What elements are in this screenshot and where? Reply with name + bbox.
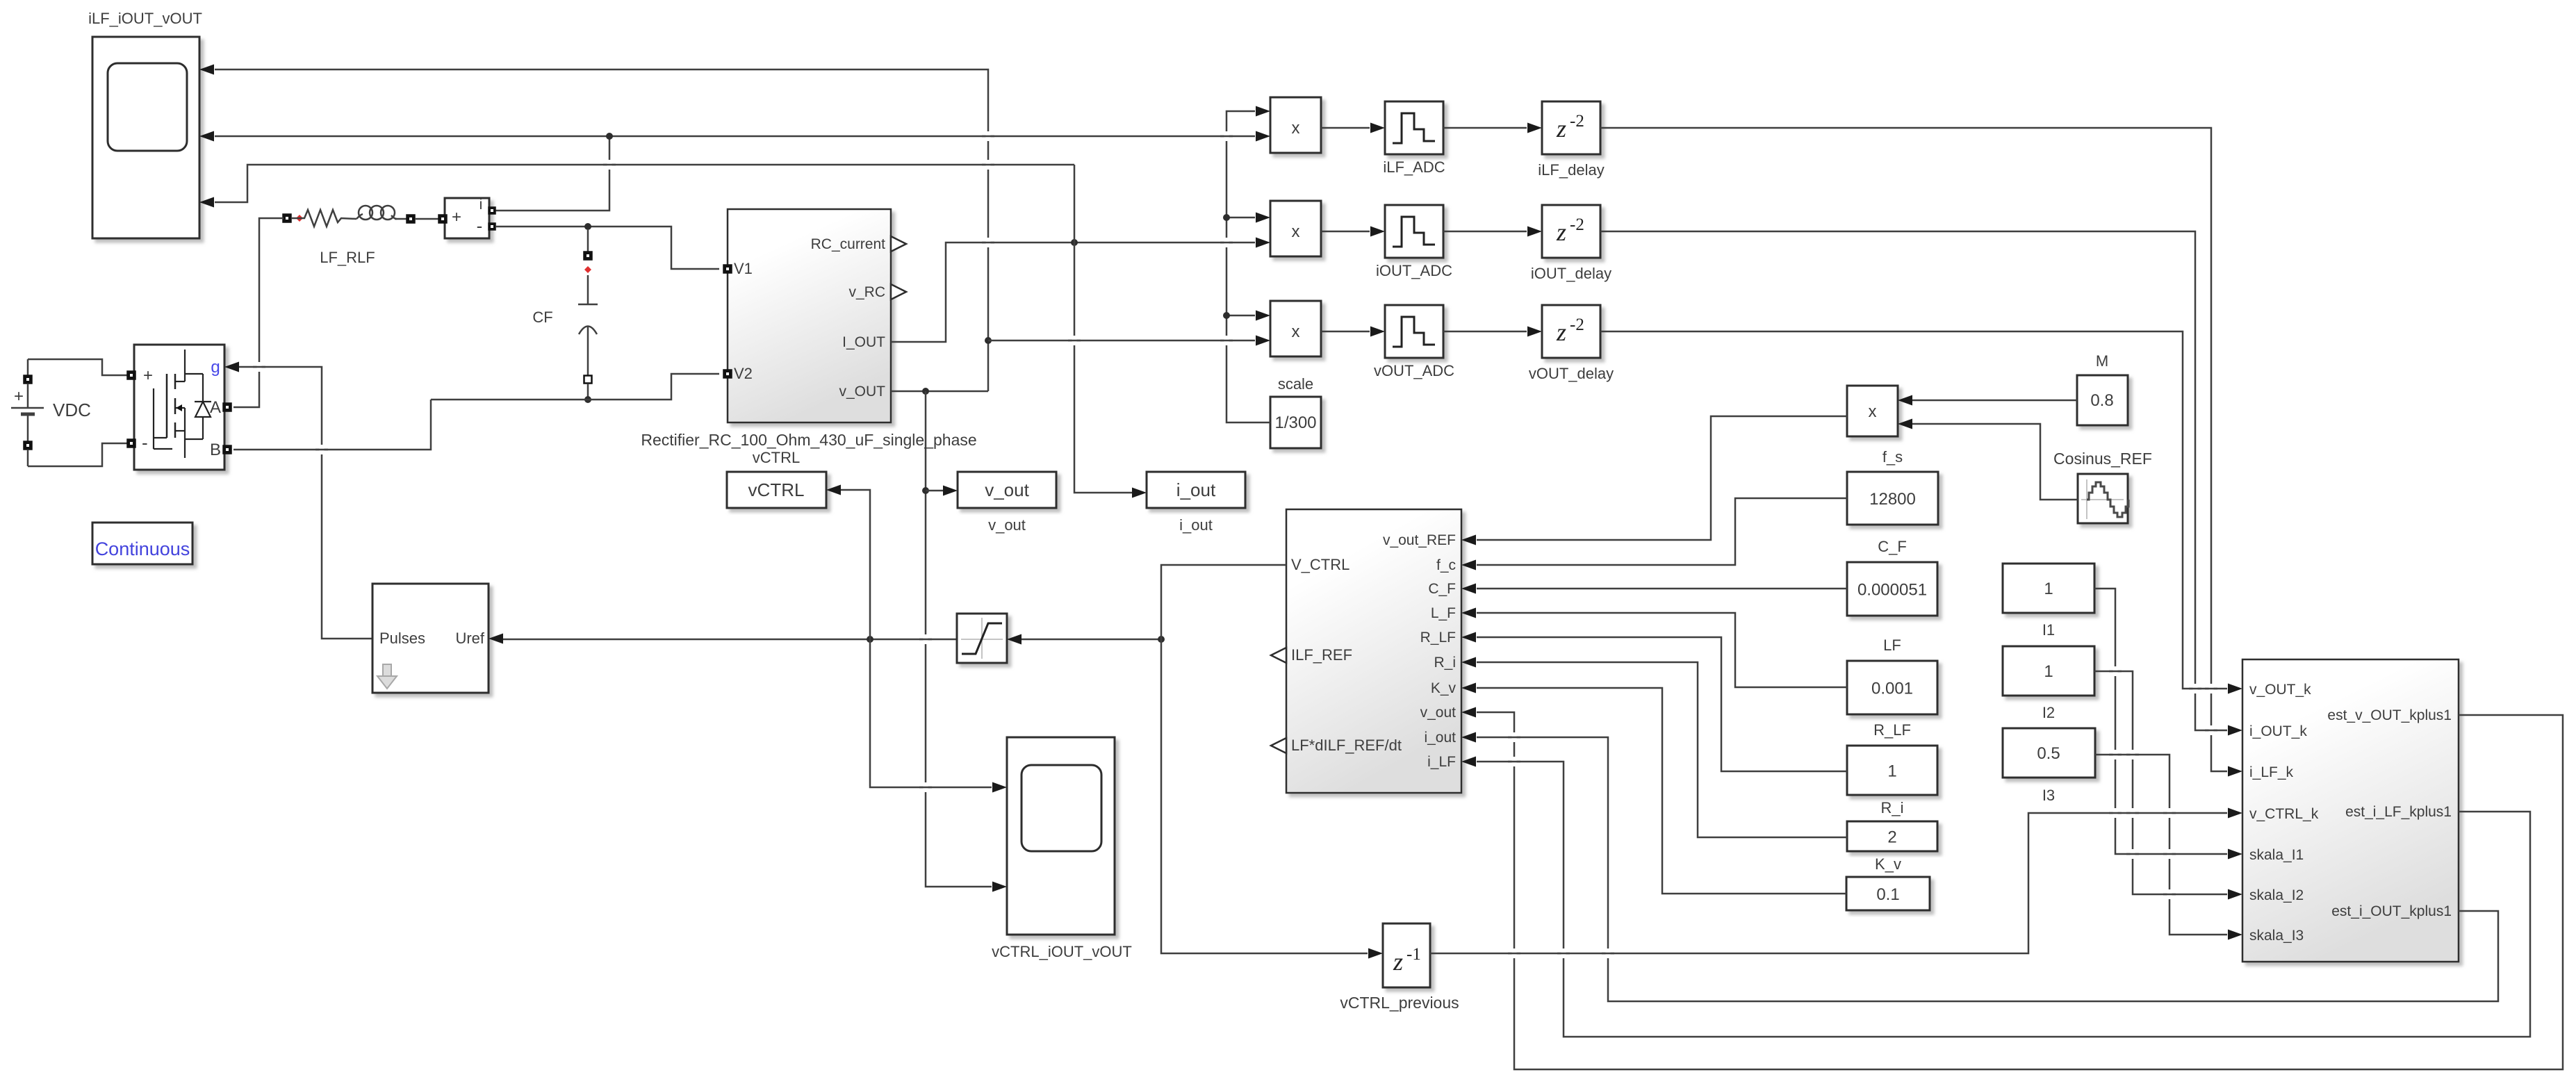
svg-text:z: z bbox=[1556, 115, 1566, 142]
svg-text:-2: -2 bbox=[1570, 112, 1584, 131]
svg-text:R_LF: R_LF bbox=[1873, 721, 1911, 739]
wire I_OUT branch up to scope rail bbox=[1074, 165, 1076, 243]
svg-text:I1: I1 bbox=[2042, 621, 2055, 639]
delay iOUT_delay bbox=[1531, 205, 1611, 282]
svg-text:v_RC: v_RC bbox=[848, 284, 885, 300]
wire V2 rail bbox=[431, 374, 719, 400]
port C_F input arrow bbox=[1461, 584, 1476, 594]
svg-text:VDC: VDC bbox=[53, 400, 91, 420]
wire f_s to controller bbox=[1477, 498, 1847, 565]
node V_CTRL junction bbox=[1158, 636, 1165, 643]
wire R_i to controller bbox=[1477, 662, 1847, 837]
mosfet half-bridge block bbox=[128, 345, 231, 470]
svg-text:I3: I3 bbox=[2042, 787, 2055, 804]
product block row 1 bbox=[1256, 97, 1321, 153]
svg-text:0.001: 0.001 bbox=[1871, 680, 1913, 698]
svg-text:v_out_REF: v_out_REF bbox=[1383, 532, 1456, 548]
svg-text:+: + bbox=[452, 208, 461, 227]
scope vCTRL_iOUT_vOUT bbox=[992, 737, 1132, 960]
svg-text:-: - bbox=[477, 215, 483, 236]
node scale branch p2 bbox=[1223, 214, 1230, 221]
svg-text:LF_RLF: LF_RLF bbox=[320, 249, 375, 266]
svg-text:x: x bbox=[1292, 322, 1300, 341]
svg-text:V2: V2 bbox=[734, 365, 753, 382]
svg-text:A: A bbox=[210, 398, 221, 417]
svg-text:x: x bbox=[1292, 119, 1300, 138]
wire LF to controller bbox=[1477, 613, 1847, 687]
wire product2 to ADC bbox=[1321, 227, 1385, 237]
svg-text:Cosinus_REF: Cosinus_REF bbox=[2053, 450, 2152, 468]
wire VDC plus to bridge bbox=[28, 359, 128, 375]
svg-text:1: 1 bbox=[1887, 762, 1896, 781]
node I_OUT junction bbox=[1071, 239, 1078, 246]
svg-text:0.000051: 0.000051 bbox=[1857, 581, 1927, 600]
wire M product output to v_out_REF bbox=[1477, 416, 1847, 540]
delay iLF_delay bbox=[1538, 101, 1604, 179]
svg-text:1: 1 bbox=[2044, 662, 2053, 681]
svg-text:-: - bbox=[142, 432, 148, 453]
constant R_i 2 bbox=[1847, 799, 1937, 851]
goto vCTRL bbox=[727, 449, 841, 508]
wire I_OUT branch down to i_out goto bbox=[1074, 243, 1147, 498]
constant K_v 0.1 bbox=[1846, 855, 1930, 910]
svg-text:vCTRL: vCTRL bbox=[753, 449, 800, 466]
port v_out_REF input arrow bbox=[1461, 535, 1476, 545]
svg-text:v_out: v_out bbox=[988, 516, 1026, 534]
wire gate input bbox=[224, 362, 372, 639]
svg-text:i_LF_k: i_LF_k bbox=[2249, 764, 2294, 780]
product block row 2 bbox=[1256, 201, 1321, 256]
wire est_i_LF_kplus1 feedback to i_LF bbox=[1477, 762, 2530, 1037]
svg-text:skala_I2: skala_I2 bbox=[2249, 887, 2304, 903]
svg-text:-2: -2 bbox=[1570, 215, 1584, 234]
port f_c input arrow bbox=[1461, 560, 1476, 570]
svg-text:M: M bbox=[2096, 352, 2108, 370]
port R_LF input arrow bbox=[1461, 632, 1476, 643]
current measurement sensor i bbox=[439, 197, 495, 238]
constant scale 1/300 bbox=[1270, 375, 1321, 448]
wire iLF_delay to i_LF_k bbox=[1600, 128, 2242, 777]
svg-text:+: + bbox=[14, 387, 24, 406]
svg-text:vCTRL: vCTRL bbox=[748, 479, 805, 500]
wire saturation to Uref bbox=[503, 639, 957, 641]
wire vOUT to scope input 1 bbox=[199, 65, 988, 392]
svg-text:R_i: R_i bbox=[1880, 799, 1903, 816]
quantizer iOUT_ADC bbox=[1376, 205, 1452, 279]
svg-text:2: 2 bbox=[1887, 828, 1896, 847]
port K_v input arrow bbox=[1461, 683, 1476, 693]
svg-text:est_i_LF_kplus1: est_i_LF_kplus1 bbox=[2345, 804, 2452, 820]
svg-text:ILF_REF: ILF_REF bbox=[1291, 646, 1352, 664]
node iLF junction bbox=[606, 133, 613, 140]
goto i_out bbox=[1147, 472, 1245, 534]
svg-text:C_F: C_F bbox=[1428, 581, 1456, 597]
svg-text:iOUT_delay: iOUT_delay bbox=[1531, 265, 1611, 282]
controller subsystem bbox=[1286, 509, 1461, 793]
wire LF_RLF to current sensor bbox=[415, 218, 438, 220]
subsystem Rectifier_RC_100_Ohm_430_uF_single_phase bbox=[641, 209, 976, 449]
svg-text:0.1: 0.1 bbox=[1876, 885, 1899, 904]
svg-text:0.8: 0.8 bbox=[2090, 391, 2113, 410]
goto v_out bbox=[958, 472, 1056, 534]
wire I_OUT to product2 bbox=[891, 243, 1255, 342]
constant I3 bbox=[2003, 728, 2095, 804]
wire V_CTRL to saturation bbox=[1022, 639, 1161, 641]
svg-text:z: z bbox=[1556, 318, 1566, 346]
constant I2 bbox=[2003, 646, 2094, 721]
svg-text:Pulses: Pulses bbox=[379, 630, 425, 647]
wire iLF to scope input 2 and product1 bbox=[199, 131, 1255, 211]
svg-text:skala_I1: skala_I1 bbox=[2249, 847, 2304, 863]
wire iOUT_ADC to delay bbox=[1443, 227, 1542, 237]
port v_out input arrow bbox=[1461, 707, 1476, 718]
wire v_OUT output bbox=[891, 391, 988, 393]
product block M bbox=[1847, 386, 1912, 436]
svg-text:est_i_OUT_kplus1: est_i_OUT_kplus1 bbox=[2331, 903, 2452, 919]
wire iOUT_delay to i_OUT_k bbox=[1600, 231, 2242, 736]
product block row 3 bbox=[1256, 301, 1321, 356]
svg-text:+: + bbox=[143, 366, 153, 385]
node v_out branch junction bbox=[922, 388, 929, 395]
constant C_F 0.000051 bbox=[1847, 538, 1937, 616]
svg-text:LF*dILF_REF/dt: LF*dILF_REF/dt bbox=[1291, 737, 1402, 754]
svg-text:L_F: L_F bbox=[1431, 605, 1456, 621]
wire crossing hops bbox=[253, 131, 2217, 958]
wire vCTRL goto feed bbox=[841, 490, 1007, 793]
svg-text:iLF_delay: iLF_delay bbox=[1538, 161, 1604, 179]
svg-text:C_F: C_F bbox=[1878, 538, 1907, 555]
wire product1 to ADC bbox=[1321, 123, 1385, 133]
wire I2 to skala_I2 bbox=[2094, 671, 2242, 900]
svg-text:vOUT_delay: vOUT_delay bbox=[1529, 365, 1614, 382]
svg-text:V1: V1 bbox=[734, 260, 753, 277]
svg-text:iOUT_ADC: iOUT_ADC bbox=[1376, 262, 1452, 279]
svg-text:1: 1 bbox=[2044, 580, 2053, 598]
wire K_v to controller bbox=[1477, 688, 1846, 894]
port LF*dILF_REF/dt unconnected output bbox=[1271, 738, 1286, 753]
svg-text:0.5: 0.5 bbox=[2037, 744, 2060, 763]
constant LF 0.001 bbox=[1847, 637, 1937, 714]
svg-text:v_out: v_out bbox=[985, 479, 1029, 500]
constant I1 bbox=[2003, 564, 2094, 639]
svg-text:est_v_OUT_kplus1: est_v_OUT_kplus1 bbox=[2327, 707, 2452, 723]
port i_out input arrow bbox=[1461, 732, 1476, 743]
wire vOUT branch to product3 bbox=[988, 340, 1255, 342]
wire scale to products bbox=[1227, 111, 1270, 422]
wire iLF_ADC to delay bbox=[1443, 123, 1542, 133]
svg-text:vCTRL_previous: vCTRL_previous bbox=[1340, 994, 1459, 1012]
svg-text:v_CTRL_k: v_CTRL_k bbox=[2249, 806, 2319, 822]
svg-text:1/300: 1/300 bbox=[1274, 413, 1316, 432]
wire vOUT_delay to v_OUT_k bbox=[1600, 331, 2242, 694]
saturation block bbox=[957, 614, 1022, 663]
port R_i input arrow bbox=[1461, 657, 1476, 668]
powergui Continuous bbox=[92, 523, 192, 564]
svg-text:iLF_ADC: iLF_ADC bbox=[1383, 158, 1445, 176]
wire R_LF to controller bbox=[1477, 637, 1847, 771]
wire M to product bbox=[1912, 400, 2077, 402]
node v_out goto junction bbox=[922, 487, 929, 494]
port v_RC unconnected bbox=[891, 284, 906, 299]
wire product3 to ADC bbox=[1321, 327, 1385, 337]
svg-text:I2: I2 bbox=[2042, 704, 2055, 721]
wire v_out vertical bbox=[926, 391, 1007, 892]
node vOUT branch bbox=[985, 337, 992, 344]
capacitor CF bbox=[532, 230, 598, 400]
svg-text:f_c: f_c bbox=[1436, 557, 1456, 573]
node CF top junction bbox=[584, 223, 591, 230]
wire vOUT_ADC to delay bbox=[1443, 327, 1542, 337]
wire I3 to skala_I3 bbox=[2095, 755, 2242, 940]
svg-text:i_out: i_out bbox=[1424, 730, 1456, 746]
source Cosinus_REF bbox=[2053, 450, 2152, 523]
svg-text:R_i: R_i bbox=[1434, 655, 1456, 671]
svg-text:-1: -1 bbox=[1406, 945, 1421, 964]
estimator subsystem bbox=[2242, 659, 2459, 962]
svg-text:V_CTRL: V_CTRL bbox=[1291, 556, 1349, 573]
svg-text:z: z bbox=[1556, 218, 1566, 246]
wire to v_out goto bbox=[926, 486, 958, 496]
scope iLF_iOUT_vOUT bbox=[88, 10, 202, 238]
wire iOUT rail to scope input 3 bbox=[199, 165, 1074, 208]
port i_LF input arrow bbox=[1461, 757, 1476, 767]
wire V_CTRL output bbox=[1161, 565, 1383, 959]
svg-text:i: i bbox=[479, 197, 483, 213]
port ILF_REF unconnected output bbox=[1271, 648, 1286, 663]
wire z-1 output to v_CTRL_k bbox=[1430, 808, 2242, 954]
svg-text:iLF_iOUT_vOUT: iLF_iOUT_vOUT bbox=[88, 10, 202, 27]
svg-text:x: x bbox=[1292, 222, 1300, 241]
wire Cosinus_REF to product bbox=[1912, 424, 2078, 500]
svg-text:i_out: i_out bbox=[1176, 479, 1216, 500]
port RC_current unconnected bbox=[891, 236, 906, 252]
port L_F input arrow bbox=[1461, 608, 1476, 618]
node scale branch p3 bbox=[1223, 312, 1230, 319]
delay vOUT_delay bbox=[1529, 305, 1614, 382]
svg-text:z: z bbox=[1393, 948, 1403, 976]
wire est_v_OUT_kplus1 feedback to v_out bbox=[1477, 712, 2563, 1069]
svg-text:CF: CF bbox=[532, 309, 552, 326]
svg-text:LF: LF bbox=[1883, 637, 1901, 654]
quantizer vOUT_ADC bbox=[1374, 305, 1454, 379]
pulse generator Pulses bbox=[372, 584, 503, 693]
node CF bottom junction bbox=[584, 396, 591, 403]
svg-text:skala_I3: skala_I3 bbox=[2249, 928, 2304, 944]
constant R_LF 1 bbox=[1847, 721, 1937, 795]
constant f_s 12800 bbox=[1847, 448, 1938, 525]
svg-text:i_OUT_k: i_OUT_k bbox=[2249, 723, 2307, 739]
svg-text:scale: scale bbox=[1278, 375, 1313, 393]
unit delay vCTRL_previous bbox=[1340, 923, 1459, 1012]
svg-text:i_out: i_out bbox=[1179, 516, 1213, 534]
svg-text:I_OUT: I_OUT bbox=[842, 334, 885, 350]
dc source VDC bbox=[11, 359, 91, 466]
svg-text:g: g bbox=[211, 358, 220, 377]
svg-text:R_LF: R_LF bbox=[1420, 630, 1456, 646]
svg-text:vCTRL_iOUT_vOUT: vCTRL_iOUT_vOUT bbox=[992, 943, 1132, 960]
wire bridge B to rail bbox=[233, 400, 431, 450]
svg-text:i_LF: i_LF bbox=[1427, 754, 1456, 770]
svg-text:Continuous: Continuous bbox=[95, 539, 190, 559]
svg-text:v_OUT: v_OUT bbox=[839, 384, 885, 400]
svg-text:Uref: Uref bbox=[455, 630, 484, 647]
quantizer iLF_ADC bbox=[1383, 101, 1445, 176]
svg-text:RC_current: RC_current bbox=[811, 236, 886, 252]
svg-text:v_OUT_k: v_OUT_k bbox=[2249, 682, 2311, 698]
constant M 0.8 bbox=[2077, 352, 2128, 425]
resistor-inductor LF_RLF bbox=[284, 206, 415, 266]
svg-text:12800: 12800 bbox=[1869, 490, 1916, 509]
svg-text:K_v: K_v bbox=[1431, 680, 1457, 696]
wire est_i_OUT_kplus1 feedback to i_out bbox=[1477, 737, 2498, 1001]
wire I1 to skala_I1 bbox=[2094, 589, 2242, 860]
svg-text:v_out: v_out bbox=[1420, 705, 1457, 721]
svg-text:x: x bbox=[1869, 402, 1877, 421]
svg-text:f_s: f_s bbox=[1882, 448, 1903, 466]
svg-text:K_v: K_v bbox=[1875, 855, 1901, 873]
node vCTRL tap junction bbox=[867, 636, 873, 643]
svg-text:vOUT_ADC: vOUT_ADC bbox=[1374, 362, 1454, 379]
wire LF_RLF to bridge A bbox=[233, 218, 284, 407]
wire VDC minus to bridge bbox=[28, 443, 128, 466]
svg-text:B: B bbox=[210, 441, 221, 459]
wire C_F to controller bbox=[1477, 588, 1847, 590]
svg-text:-2: -2 bbox=[1570, 315, 1584, 334]
wire sensor minus to V1 bbox=[495, 227, 719, 269]
